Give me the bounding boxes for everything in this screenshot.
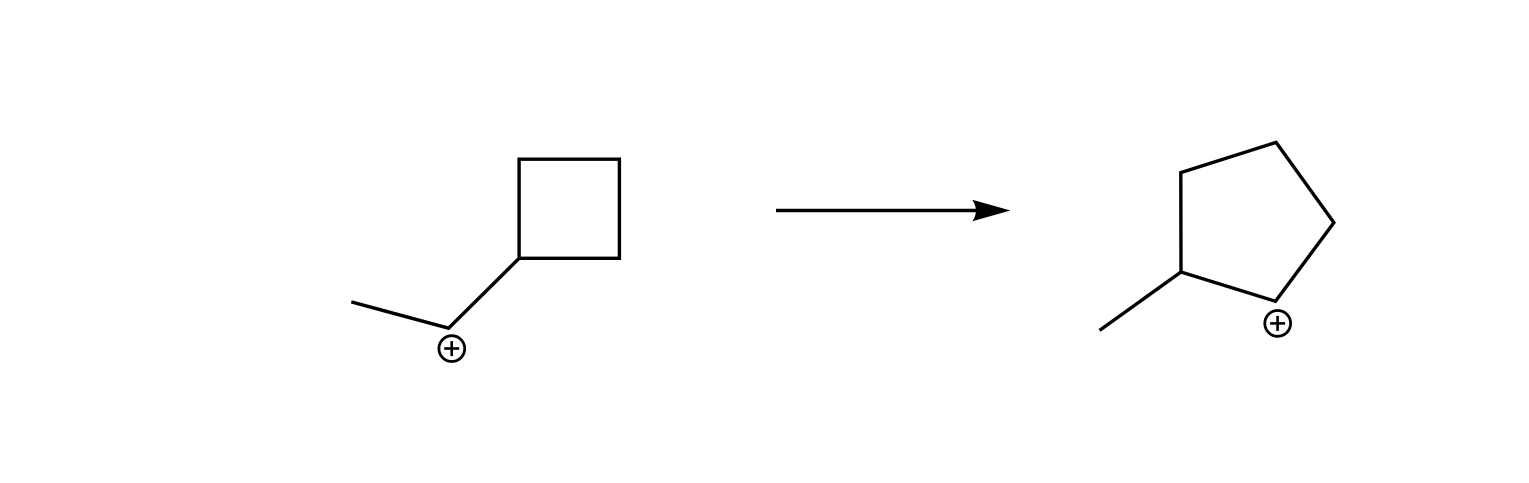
right cation circled-plus — [1265, 311, 1291, 337]
reaction arrow — [776, 209, 992, 212]
bond chain methyl-C2-ring (mitered) — [351, 258, 519, 328]
cyclopentane ring — [1181, 142, 1334, 301]
cyclobutane ring — [519, 159, 619, 258]
left cation circled-plus — [439, 336, 465, 362]
methyl bond (right) — [1100, 272, 1181, 330]
